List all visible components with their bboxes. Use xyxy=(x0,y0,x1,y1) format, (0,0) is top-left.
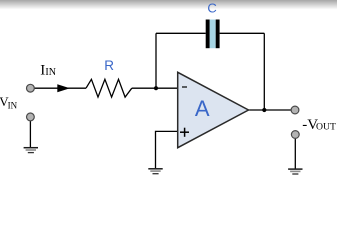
svg-text:C: C xyxy=(207,1,216,16)
svg-text:R: R xyxy=(104,58,114,73)
svg-text:A: A xyxy=(195,96,210,121)
svg-text:IN: IN xyxy=(8,100,18,110)
svg-text:OUT: OUT xyxy=(316,121,336,132)
svg-text:IN: IN xyxy=(45,67,56,78)
